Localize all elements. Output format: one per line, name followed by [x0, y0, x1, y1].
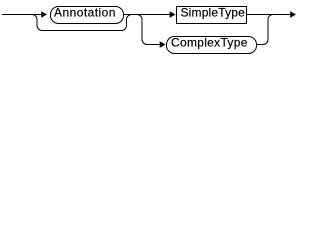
- background: [0, 0, 299, 59]
- svg-text:ComplexType: ComplexType: [171, 36, 248, 50]
- box SimpleType: [177, 7, 247, 24]
- wire: after Annotation to choice split: [124, 14, 171, 16]
- arrow into SimpleType: [170, 11, 176, 18]
- box Annotation: [51, 7, 124, 24]
- wire: choice branch down to ComplexType: [137, 15, 160, 45]
- arrow into ComplexType: [160, 41, 166, 48]
- svg-text:SimpleType: SimpleType: [181, 6, 246, 20]
- wire: main entry line: [2, 14, 42, 16]
- wire: optional bypass (skip Annotation): [32, 15, 132, 31]
- wire: SimpleType to exit: [247, 14, 291, 16]
- wire: ComplexType return up to main line: [257, 15, 274, 45]
- svg-text:Annotation: Annotation: [54, 6, 116, 20]
- box ComplexType: [167, 37, 257, 54]
- arrow: diagram exit: [290, 11, 296, 18]
- arrow into Annotation: [41, 11, 47, 18]
